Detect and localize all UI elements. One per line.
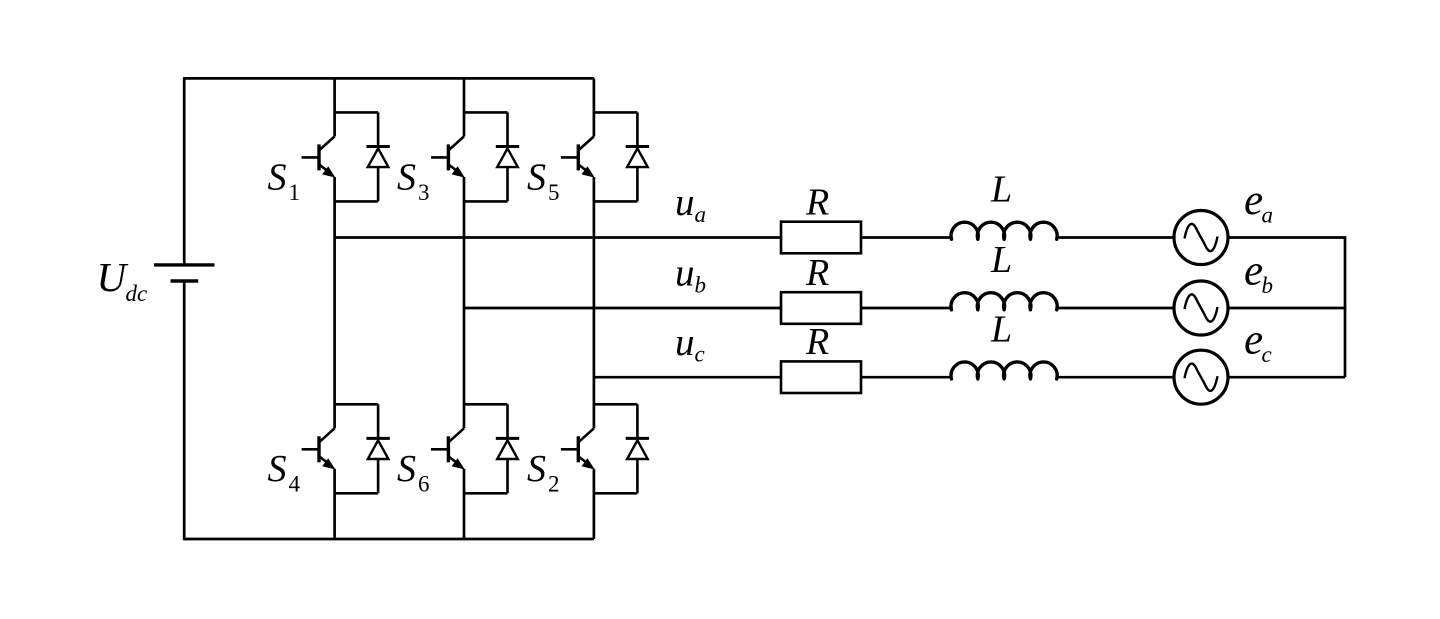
svg-text:dc: dc bbox=[126, 281, 148, 306]
svg-text:5: 5 bbox=[548, 180, 560, 205]
svg-text:3: 3 bbox=[418, 180, 430, 205]
svg-text:L: L bbox=[990, 308, 1012, 350]
svg-text:e: e bbox=[1244, 317, 1263, 364]
svg-text:R: R bbox=[805, 181, 829, 223]
svg-text:L: L bbox=[990, 239, 1012, 281]
svg-text:L: L bbox=[990, 169, 1012, 211]
svg-text:R: R bbox=[805, 321, 829, 363]
svg-text:S: S bbox=[397, 448, 416, 490]
svg-text:S: S bbox=[268, 448, 287, 490]
svg-text:c: c bbox=[1262, 342, 1272, 367]
svg-text:u: u bbox=[675, 252, 695, 295]
svg-text:S: S bbox=[527, 157, 546, 199]
svg-text:a: a bbox=[695, 202, 707, 227]
svg-text:6: 6 bbox=[418, 471, 430, 496]
svg-text:b: b bbox=[695, 272, 707, 297]
svg-text:R: R bbox=[805, 252, 829, 294]
svg-text:S: S bbox=[397, 157, 416, 199]
svg-text:2: 2 bbox=[548, 471, 560, 496]
svg-text:b: b bbox=[1262, 273, 1274, 298]
svg-text:1: 1 bbox=[289, 180, 301, 205]
svg-text:e: e bbox=[1244, 248, 1263, 295]
svg-text:u: u bbox=[675, 181, 695, 224]
svg-text:U: U bbox=[97, 254, 129, 300]
svg-text:e: e bbox=[1244, 177, 1263, 224]
svg-text:S: S bbox=[527, 448, 546, 490]
svg-text:4: 4 bbox=[289, 471, 301, 496]
svg-text:u: u bbox=[675, 321, 695, 364]
svg-text:c: c bbox=[695, 342, 705, 367]
svg-text:a: a bbox=[1262, 202, 1274, 227]
svg-text:S: S bbox=[268, 157, 287, 199]
